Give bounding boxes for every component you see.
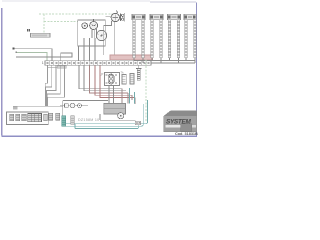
wire right bus b	[151, 62, 195, 64]
terminal strip X1	[45, 61, 151, 66]
tiny label above box	[13, 107, 18, 110]
relay box K1	[105, 73, 120, 86]
cam switch C1	[82, 23, 88, 29]
teal bar B1	[62, 116, 66, 127]
teal wires	[66, 100, 148, 124]
wire green dashed B	[44, 21, 78, 23]
svg-text:Cod. 31831B: Cod. 31831B	[175, 132, 198, 136]
pump motor circle	[118, 113, 124, 119]
wires from M1 down	[91, 29, 93, 38]
interference filter circles row	[60, 103, 88, 108]
heater R1	[132, 14, 145, 57]
wire left staircase to terminal box	[45, 65, 47, 106]
component K2	[121, 71, 135, 85]
SYSTEM logo	[164, 111, 197, 132]
square S2	[56, 113, 60, 120]
wire feeder row	[63, 100, 108, 102]
wire L2	[16, 52, 47, 60]
motor M1	[90, 22, 98, 30]
wire L1	[13, 49, 52, 61]
svg-text:11B: 11B	[136, 121, 141, 125]
wire green dashed top A	[39, 13, 112, 15]
bus bar pink	[110, 55, 153, 60]
border frame	[196, 3, 198, 136]
wire heater bus 1	[134, 58, 195, 64]
label box TS	[27, 29, 50, 37]
svg-text:1: 1	[42, 61, 44, 65]
wire M2 left	[105, 16, 111, 18]
heater R4	[184, 14, 196, 57]
heater R2	[150, 14, 163, 57]
staircase wires to relay	[79, 65, 122, 88]
wires timer box bottom to strip	[78, 46, 80, 61]
timer box	[78, 20, 106, 46]
strip sublabel	[57, 66, 66, 68]
wire under block	[100, 119, 136, 121]
gray bar B2	[71, 116, 74, 124]
square S1	[49, 113, 53, 120]
green dashed vertical right	[145, 60, 147, 123]
svg-text:DZ158M 10: DZ158M 10	[78, 118, 99, 122]
fan motor M2 cluster	[111, 11, 124, 22]
hatched block H1	[104, 104, 126, 115]
wire L3	[16, 53, 72, 61]
label 11B	[135, 121, 140, 125]
terminal box bottom-left	[7, 112, 49, 124]
wire M2 down2	[113, 22, 115, 55]
wire green dashed vertical to label	[43, 14, 45, 33]
wire relay box drops	[122, 89, 135, 104]
wire right bus a	[134, 60, 196, 62]
motor M3	[96, 30, 106, 40]
wire M2 down	[104, 21, 112, 55]
element E5 vertical	[136, 65, 142, 80]
svg-text:7k: 7k	[121, 71, 125, 75]
heater R3	[168, 14, 181, 57]
